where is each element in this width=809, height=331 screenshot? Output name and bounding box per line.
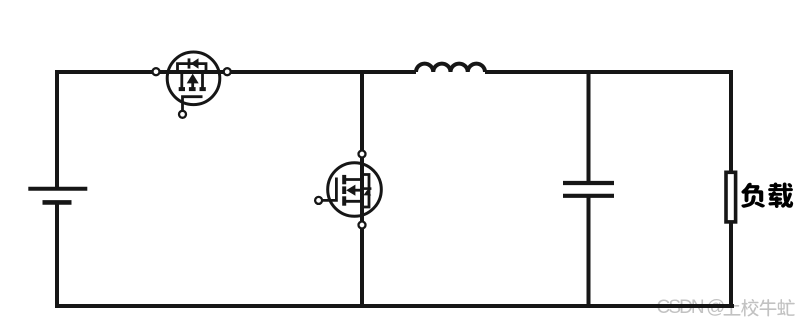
wire: battery negative to bottom rail [55, 203, 59, 308]
mosfet Q1 source stem [201, 72, 204, 88]
wire: top rail right section + right drop to load [485, 72, 731, 172]
mosfet Q1 left terminal node [153, 68, 160, 75]
mosfet Q2 gate line [322, 178, 336, 201]
mosfet Q1 gate terminal node [179, 111, 186, 118]
mosfet Q2 gate terminal node [315, 197, 322, 204]
mosfet Q1 right terminal node [224, 68, 231, 75]
mosfet Q1 body diode cathode bar [188, 58, 191, 68]
watermark text CSDN @上校牛虻 [657, 297, 795, 318]
battery V1 negative plate [43, 200, 72, 205]
mosfet Q1 drain stem [180, 72, 183, 88]
mosfet Q1 gate line [183, 97, 203, 111]
wire: capacitor branch top [587, 70, 591, 183]
wire: bottom rail [55, 304, 734, 308]
mosfet Q1 body diode loop [178, 64, 207, 73]
mosfet Q1 channel bars [179, 87, 206, 91]
mosfet Q1 body circle [167, 52, 220, 105]
mosfet Q1 body diode triangle [191, 58, 199, 68]
mosfet Q2 drain stem [345, 178, 363, 181]
load resistor box [726, 172, 736, 222]
label 负载 (load) [741, 182, 793, 208]
mosfet Q2 source stem [345, 200, 363, 203]
mosfet Q1 substrate stem [191, 83, 194, 88]
mosfet Q1 substrate arrow [187, 74, 199, 84]
mosfet Q2 body circle [328, 163, 382, 217]
mosfet Q2 bottom terminal node [359, 222, 366, 229]
wire: load bottom lead [729, 223, 733, 308]
mosfet Q2 top terminal node [359, 151, 366, 158]
mosfet Q2 body diode triangle [363, 190, 371, 196]
mosfet Q2 substrate stem [355, 189, 362, 192]
capacitor C1 bottom plate [563, 194, 614, 198]
wire: switch Q2 branch [360, 70, 364, 308]
mosfet Q2 body diode cathode bar [363, 187, 371, 190]
wire: capacitor branch bottom [587, 196, 591, 308]
battery V1 positive plate [28, 187, 87, 191]
mosfet Q2 substrate arrow [346, 185, 355, 196]
mosfet Q2 body diode loop [361, 175, 369, 208]
wire: left rail + top rail left section [57, 72, 416, 189]
capacitor C1 top plate [563, 181, 614, 185]
inductor L1 [416, 64, 485, 72]
mosfet Q2 channel bars [342, 175, 346, 206]
